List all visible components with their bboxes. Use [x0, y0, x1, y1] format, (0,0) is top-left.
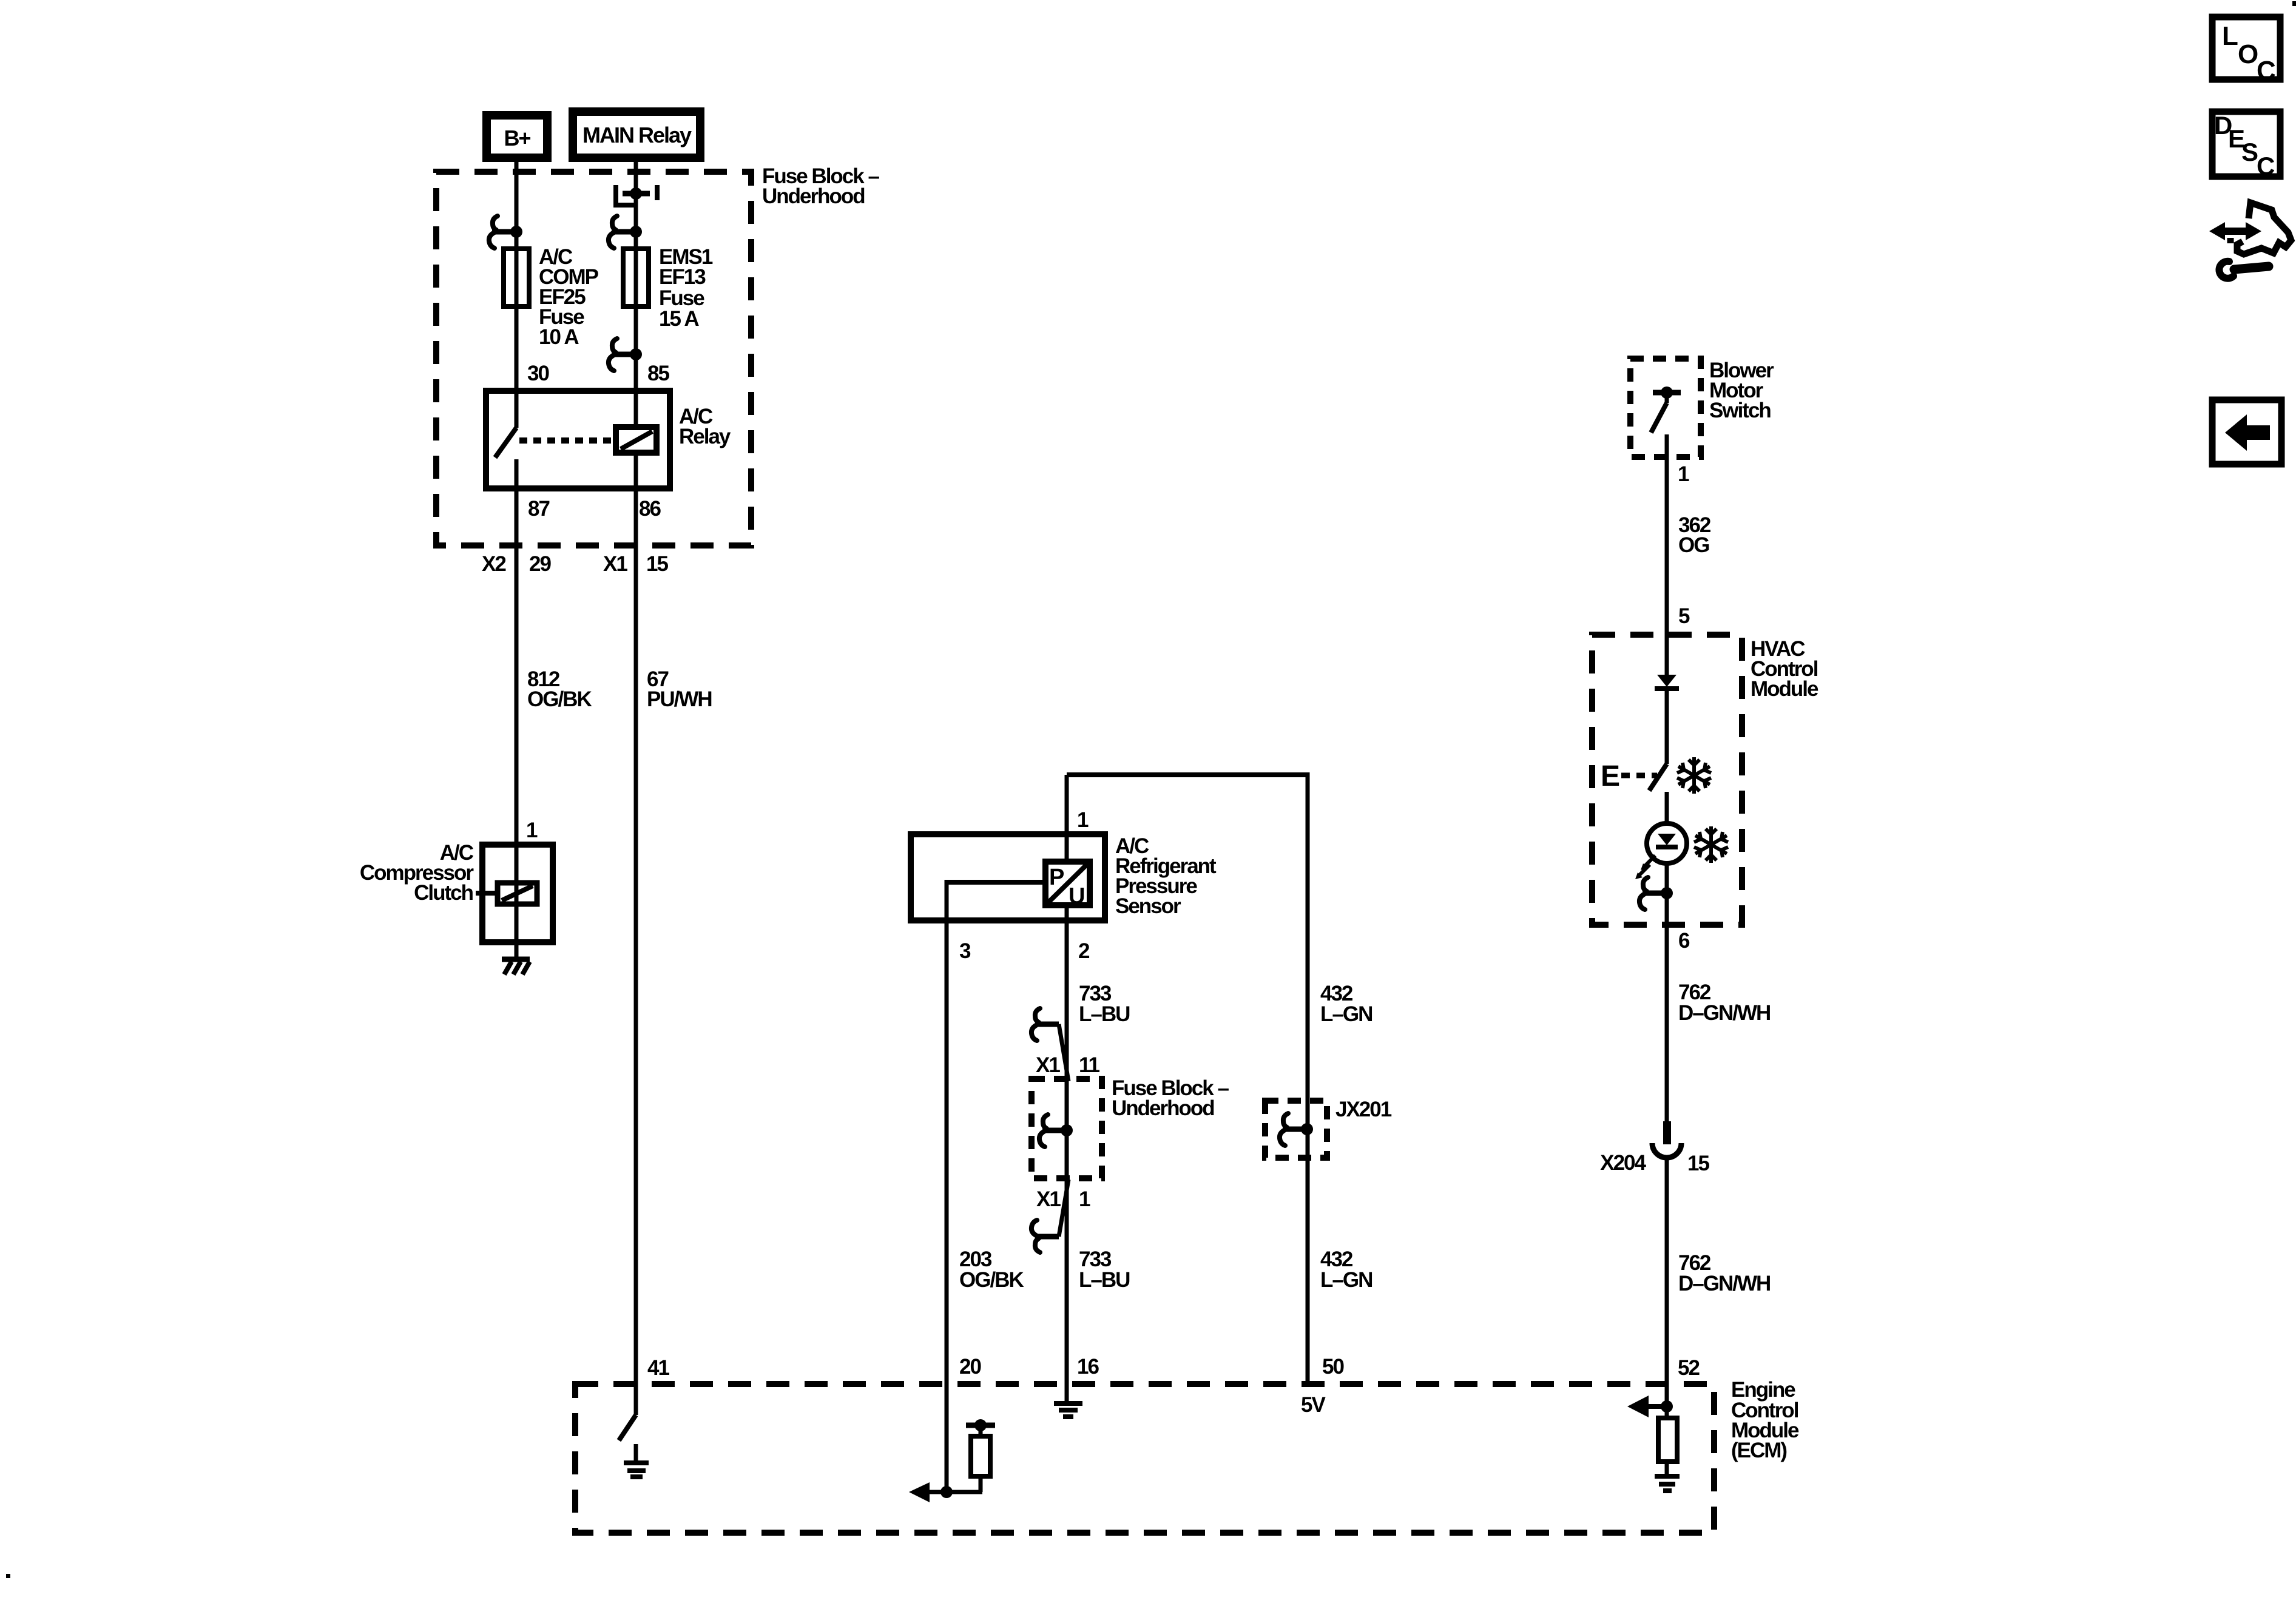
svg-text:Underhood: Underhood — [1112, 1096, 1214, 1120]
svg-text:D–GN/WH: D–GN/WH — [1678, 1272, 1770, 1295]
Fuse Block - Underhood dashed box — [436, 172, 751, 545]
svg-text:1: 1 — [526, 819, 538, 842]
svg-text:Underhood: Underhood — [762, 184, 865, 208]
wire MAIN Relay to A/C relay coil pin 85 — [634, 162, 638, 427]
blower switch arm — [1665, 393, 1669, 403]
svg-text:C: C — [2257, 56, 2275, 86]
A/C Refrigerant Pressure Sensor box — [911, 834, 1105, 920]
wire 432 L-GN branch to ECM pin 50 — [1306, 772, 1310, 1386]
clutch coil feed inside box — [515, 845, 519, 942]
svg-text:11: 11 — [1079, 1053, 1100, 1077]
ECM pin 20 internal lead — [918, 1490, 982, 1494]
A/C Compressor Clutch box — [482, 845, 553, 942]
earth ground at pin 16 — [1054, 1401, 1082, 1406]
back arrow navigation box — [2212, 400, 2281, 464]
E switch arm — [1649, 764, 1667, 791]
svg-text:Switch: Switch — [1709, 399, 1771, 422]
wire clutch to chassis ground — [515, 942, 519, 959]
signal arrow at pin 52 — [1647, 1404, 1667, 1409]
svg-text:41: 41 — [647, 1356, 669, 1380]
snowflake LED icon — [1694, 826, 1728, 863]
svg-text:D–GN/WH: D–GN/WH — [1678, 1001, 1770, 1025]
blower switch common terminal — [1653, 390, 1681, 396]
Fuse Block - Underhood small dashed box — [1032, 1079, 1102, 1178]
connector terminal inside JX201 — [1280, 1113, 1288, 1146]
svg-text:6: 6 — [1678, 929, 1690, 953]
svg-text:X2: X2 — [482, 552, 506, 576]
connector terminal on EF25 feed — [489, 216, 498, 248]
svg-text:(ECM): (ECM) — [1731, 1439, 1786, 1462]
svg-text:OG/BK: OG/BK — [959, 1268, 1024, 1292]
svg-text:10 A: 10 A — [539, 325, 579, 349]
earth ground at pin 52 — [1655, 1474, 1680, 1479]
svg-text:P: P — [1049, 865, 1064, 890]
svg-text:E: E — [1601, 760, 1619, 792]
svg-text:S: S — [2241, 138, 2258, 166]
wire LED to HVAC pin 6 — [1665, 863, 1669, 1124]
svg-text:86: 86 — [639, 497, 661, 521]
svg-text:L–GN: L–GN — [1320, 1002, 1372, 1026]
svg-text:52: 52 — [1678, 1356, 1700, 1380]
svg-text:X1: X1 — [1036, 1053, 1060, 1077]
wire relay pin 86 / X1 15 to ECM pin 41 — [634, 453, 638, 1415]
svg-text:X1: X1 — [603, 552, 627, 576]
connector terminal below LED — [1639, 877, 1648, 910]
A/C relay box — [486, 391, 670, 488]
svg-text:O: O — [2238, 39, 2258, 69]
svg-text:L–BU: L–BU — [1079, 1268, 1130, 1292]
svg-text:L: L — [2222, 21, 2238, 51]
ECM pin 41 switch arm — [619, 1415, 636, 1440]
pull-up terminal bar at pin 20 — [966, 1423, 995, 1428]
svg-text:85: 85 — [647, 362, 669, 385]
wire E switch to LED — [1665, 792, 1669, 825]
wire B+ to A/C relay pin 30 — [515, 162, 519, 428]
wire diode to E switch — [1665, 689, 1669, 764]
wire 5V loop top — [1067, 772, 1308, 777]
svg-text:2: 2 — [1078, 939, 1090, 963]
svg-text:29: 29 — [529, 552, 551, 576]
chassis ground — [502, 957, 530, 962]
page mark bottom left — [6, 1574, 10, 1578]
svg-text:3: 3 — [959, 939, 971, 963]
B+ power box — [487, 115, 547, 158]
MAIN Relay power box — [573, 112, 700, 158]
DESC navigation box — [2212, 112, 2280, 177]
svg-text:Relay: Relay — [679, 425, 731, 448]
relay coil — [616, 427, 657, 453]
P/U transducer symbol — [1045, 862, 1090, 905]
connector X204 pin 15 — [1663, 1121, 1671, 1144]
svg-text:Clutch: Clutch — [414, 881, 473, 905]
svg-text:L–BU: L–BU — [1079, 1002, 1130, 1026]
svg-text:MAIN Relay: MAIN Relay — [582, 123, 692, 147]
wire sensor pin 1 riser — [1065, 775, 1069, 862]
connector terminal on EF13 feed — [609, 216, 617, 248]
svg-text:1: 1 — [1077, 808, 1089, 832]
svg-text:JX201: JX201 — [1335, 1098, 1392, 1121]
svg-text:X1: X1 — [1036, 1187, 1061, 1211]
fuse A/C COMP EF25 10 A — [504, 249, 529, 306]
svg-text:15: 15 — [1687, 1152, 1709, 1175]
Engine Control Module dashed box — [575, 1384, 1714, 1533]
svg-text:EF13: EF13 — [659, 265, 706, 289]
connector X1 11 pass-through terminal — [1032, 1008, 1040, 1041]
svg-text:1: 1 — [1678, 462, 1689, 486]
junction at pin 20 lead — [940, 1486, 953, 1498]
svg-text:L–GN: L–GN — [1320, 1268, 1372, 1292]
relay fixed contact stub — [515, 459, 519, 488]
resistor at pin 20 — [979, 1425, 983, 1436]
svg-text:PU/WH: PU/WH — [647, 687, 712, 711]
icon double arrow — [2209, 222, 2261, 240]
clutch coil — [498, 883, 537, 904]
svg-text:B+: B+ — [504, 126, 530, 150]
connector terminal above relay pin 85 — [609, 339, 617, 371]
svg-text:87: 87 — [528, 497, 549, 521]
wire blower switch pin 1 to HVAC pin 5 — [1665, 434, 1669, 676]
snowflake A/C request icon — [1677, 757, 1711, 794]
svg-text:Sensor: Sensor — [1115, 894, 1181, 918]
svg-text:16: 16 — [1077, 1355, 1099, 1379]
LED indicator — [1647, 823, 1687, 863]
svg-text:Module: Module — [1751, 677, 1818, 701]
wire relay pin 87 to A/C compressor clutch pin 1 — [515, 488, 519, 845]
diode inside HVAC — [1657, 675, 1676, 687]
svg-text:5V: 5V — [1301, 1393, 1326, 1417]
page mark top right — [2292, 1, 2296, 6]
wire sensor pin 3 to ECM pin 20 — [945, 880, 949, 1492]
svg-text:X204: X204 — [1600, 1151, 1646, 1175]
relay actuation dashed link — [519, 437, 615, 444]
junction at pin 52 lead — [1661, 1400, 1673, 1413]
HVAC Control Module dashed box — [1592, 635, 1742, 925]
relay switch arm — [495, 428, 516, 457]
terminal bracket at MAIN relay feed — [616, 185, 657, 205]
clutch coil stub — [476, 891, 482, 896]
svg-text:OG: OG — [1678, 533, 1709, 557]
fuse EMS1 EF13 15 A — [623, 249, 649, 306]
connector X1 1 pass-through terminal — [1032, 1220, 1040, 1252]
wire X204 to ECM pin 52 — [1665, 1158, 1669, 1418]
svg-text:5: 5 — [1678, 604, 1690, 628]
Blower Motor Switch dashed box — [1630, 359, 1701, 457]
svg-text:OG/BK: OG/BK — [527, 687, 592, 711]
LOC navigation box — [2212, 17, 2280, 79]
connector terminal inside small fuse block — [1039, 1115, 1048, 1147]
svg-text:50: 50 — [1322, 1355, 1344, 1379]
icon wrench — [2234, 266, 2269, 269]
wire sensor ground trace inside sensor — [947, 880, 1045, 885]
svg-text:15 A: 15 A — [659, 307, 699, 331]
wire sensor pin 2 to ECM pin 16 — [1065, 905, 1069, 1401]
diagnostic hand and wrench icon — [2230, 203, 2291, 254]
earth ground at pin 41 — [624, 1460, 649, 1465]
svg-text:1: 1 — [1079, 1187, 1090, 1211]
relay coil feed inside box — [634, 391, 638, 427]
svg-text:30: 30 — [527, 362, 549, 385]
signal arrow at pin 20 — [909, 1482, 930, 1502]
svg-text:C: C — [2257, 152, 2275, 180]
svg-text:U: U — [1069, 883, 1084, 909]
svg-text:20: 20 — [959, 1355, 981, 1379]
JX201 junction dashed box — [1265, 1101, 1327, 1158]
ECM pin 41 ground stub — [634, 1444, 638, 1462]
svg-text:15: 15 — [646, 552, 668, 576]
resistor at pin 52 — [1658, 1418, 1677, 1462]
